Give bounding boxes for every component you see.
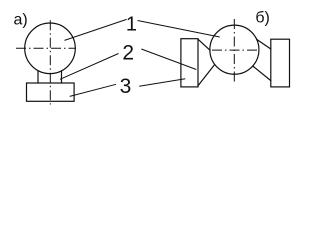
- svg-text:а): а): [14, 12, 28, 29]
- svg-text:3: 3: [120, 75, 132, 98]
- svg-text:2: 2: [122, 41, 134, 64]
- svg-text:б): б): [255, 10, 270, 27]
- svg-text:1: 1: [126, 14, 137, 36]
